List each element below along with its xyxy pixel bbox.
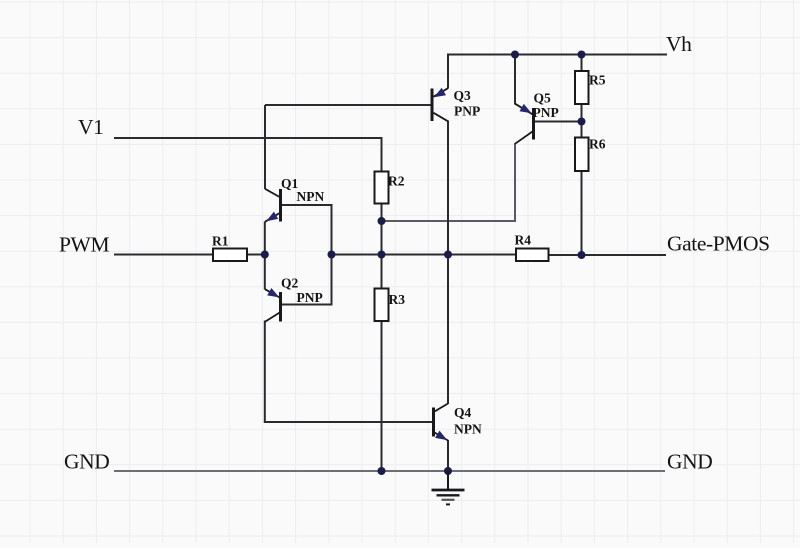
svg-text:R3: R3 (389, 292, 406, 307)
wire R5 bottom to R6 top (581, 103, 583, 138)
wire Q5 collector drop (514, 143, 516, 222)
svg-text:PNP: PNP (533, 105, 559, 120)
wire Q5 base lead (535, 121, 582, 123)
wire Q2 collector drop (264, 321, 266, 423)
transistor Q4 (434, 404, 449, 441)
wire Q1 emitter to Q2 emitter (264, 222, 266, 290)
wire Vh line (448, 54, 667, 56)
resistor R5 (575, 71, 589, 104)
resistor R3 (375, 289, 389, 322)
wire R4 to Gate-PMOS (548, 254, 667, 256)
svg-text:V1: V1 (78, 115, 103, 139)
svg-text:R2: R2 (388, 174, 405, 189)
svg-text:NPN: NPN (454, 422, 482, 437)
wire PWM line (114, 254, 214, 256)
svg-text:PNP: PNP (454, 104, 480, 119)
wire Vh to Q3 emitter (447, 54, 449, 89)
transistor Q5 (515, 104, 534, 144)
wire V1 line (114, 137, 382, 139)
junction Vh / R5 (578, 51, 586, 59)
transistor Q2 (265, 289, 281, 322)
wire R1 to emitter node (246, 254, 265, 256)
wire node R2R3 to Q5 collector (382, 220, 516, 222)
wire Vh to Q5 emitter (514, 55, 516, 105)
wire Q1 collector riser (264, 105, 266, 189)
resistor R6 (575, 138, 589, 172)
svg-text:NPN: NPN (297, 189, 325, 204)
wire node B to R4 (332, 254, 518, 256)
svg-text:PWM: PWM (59, 233, 109, 257)
svg-text:GND: GND (667, 450, 712, 474)
junction R5 R6 / Q5 base (578, 118, 586, 126)
wire R2 bottom to R3 top (381, 203, 383, 290)
svg-text:R4: R4 (515, 233, 532, 248)
junction base node (328, 251, 336, 259)
svg-text:R5: R5 (589, 73, 606, 88)
junction R2 bottom / Q5 collector (378, 217, 386, 225)
junction Vh / Q5 emitter (511, 51, 519, 59)
svg-text:Q5: Q5 (534, 91, 552, 106)
resistor R1 (213, 249, 247, 262)
svg-text:GND: GND (64, 450, 109, 474)
svg-text:Q4: Q4 (454, 405, 472, 420)
wire Q2 base lead (282, 304, 332, 306)
junction R2R3 node (378, 251, 386, 259)
wire V1 to R2 top (381, 137, 383, 172)
wire Vh to R5 top (581, 55, 583, 73)
svg-text:Q2: Q2 (281, 276, 299, 291)
wire R3 bottom to GND (381, 320, 383, 472)
svg-text:Vh: Vh (666, 32, 692, 56)
resistor R4 (516, 249, 549, 262)
wire Q3 collector to Q4 collector (447, 121, 449, 405)
transistor Q3 (432, 88, 448, 121)
junction emitter node / R1 (261, 251, 269, 259)
wire GND line (114, 470, 665, 472)
wire Q4 base lead (264, 421, 433, 423)
wire base tie vertical (331, 204, 333, 306)
svg-text:R1: R1 (212, 234, 229, 249)
svg-text:Gate-PMOS: Gate-PMOS (667, 232, 770, 256)
junction Q4 emitter / GND line (444, 467, 452, 475)
junction R6 / Gate-PMOS line (578, 251, 586, 259)
ground (432, 471, 465, 504)
svg-text:Q3: Q3 (454, 88, 472, 103)
junction Q3Q4 collector node (444, 251, 452, 259)
wire R6 bottom to Gate-PMOS line (581, 170, 583, 255)
wire Q1 base lead (282, 204, 332, 206)
resistor R2 (375, 172, 389, 204)
svg-text:R6: R6 (589, 137, 606, 152)
svg-text:PNP: PNP (297, 290, 323, 305)
transistor Q1 (265, 189, 281, 222)
wire Q4 emitter to GND (447, 440, 449, 472)
junction R3 / GND line (378, 467, 386, 475)
wire Q3 base lead (265, 104, 432, 106)
